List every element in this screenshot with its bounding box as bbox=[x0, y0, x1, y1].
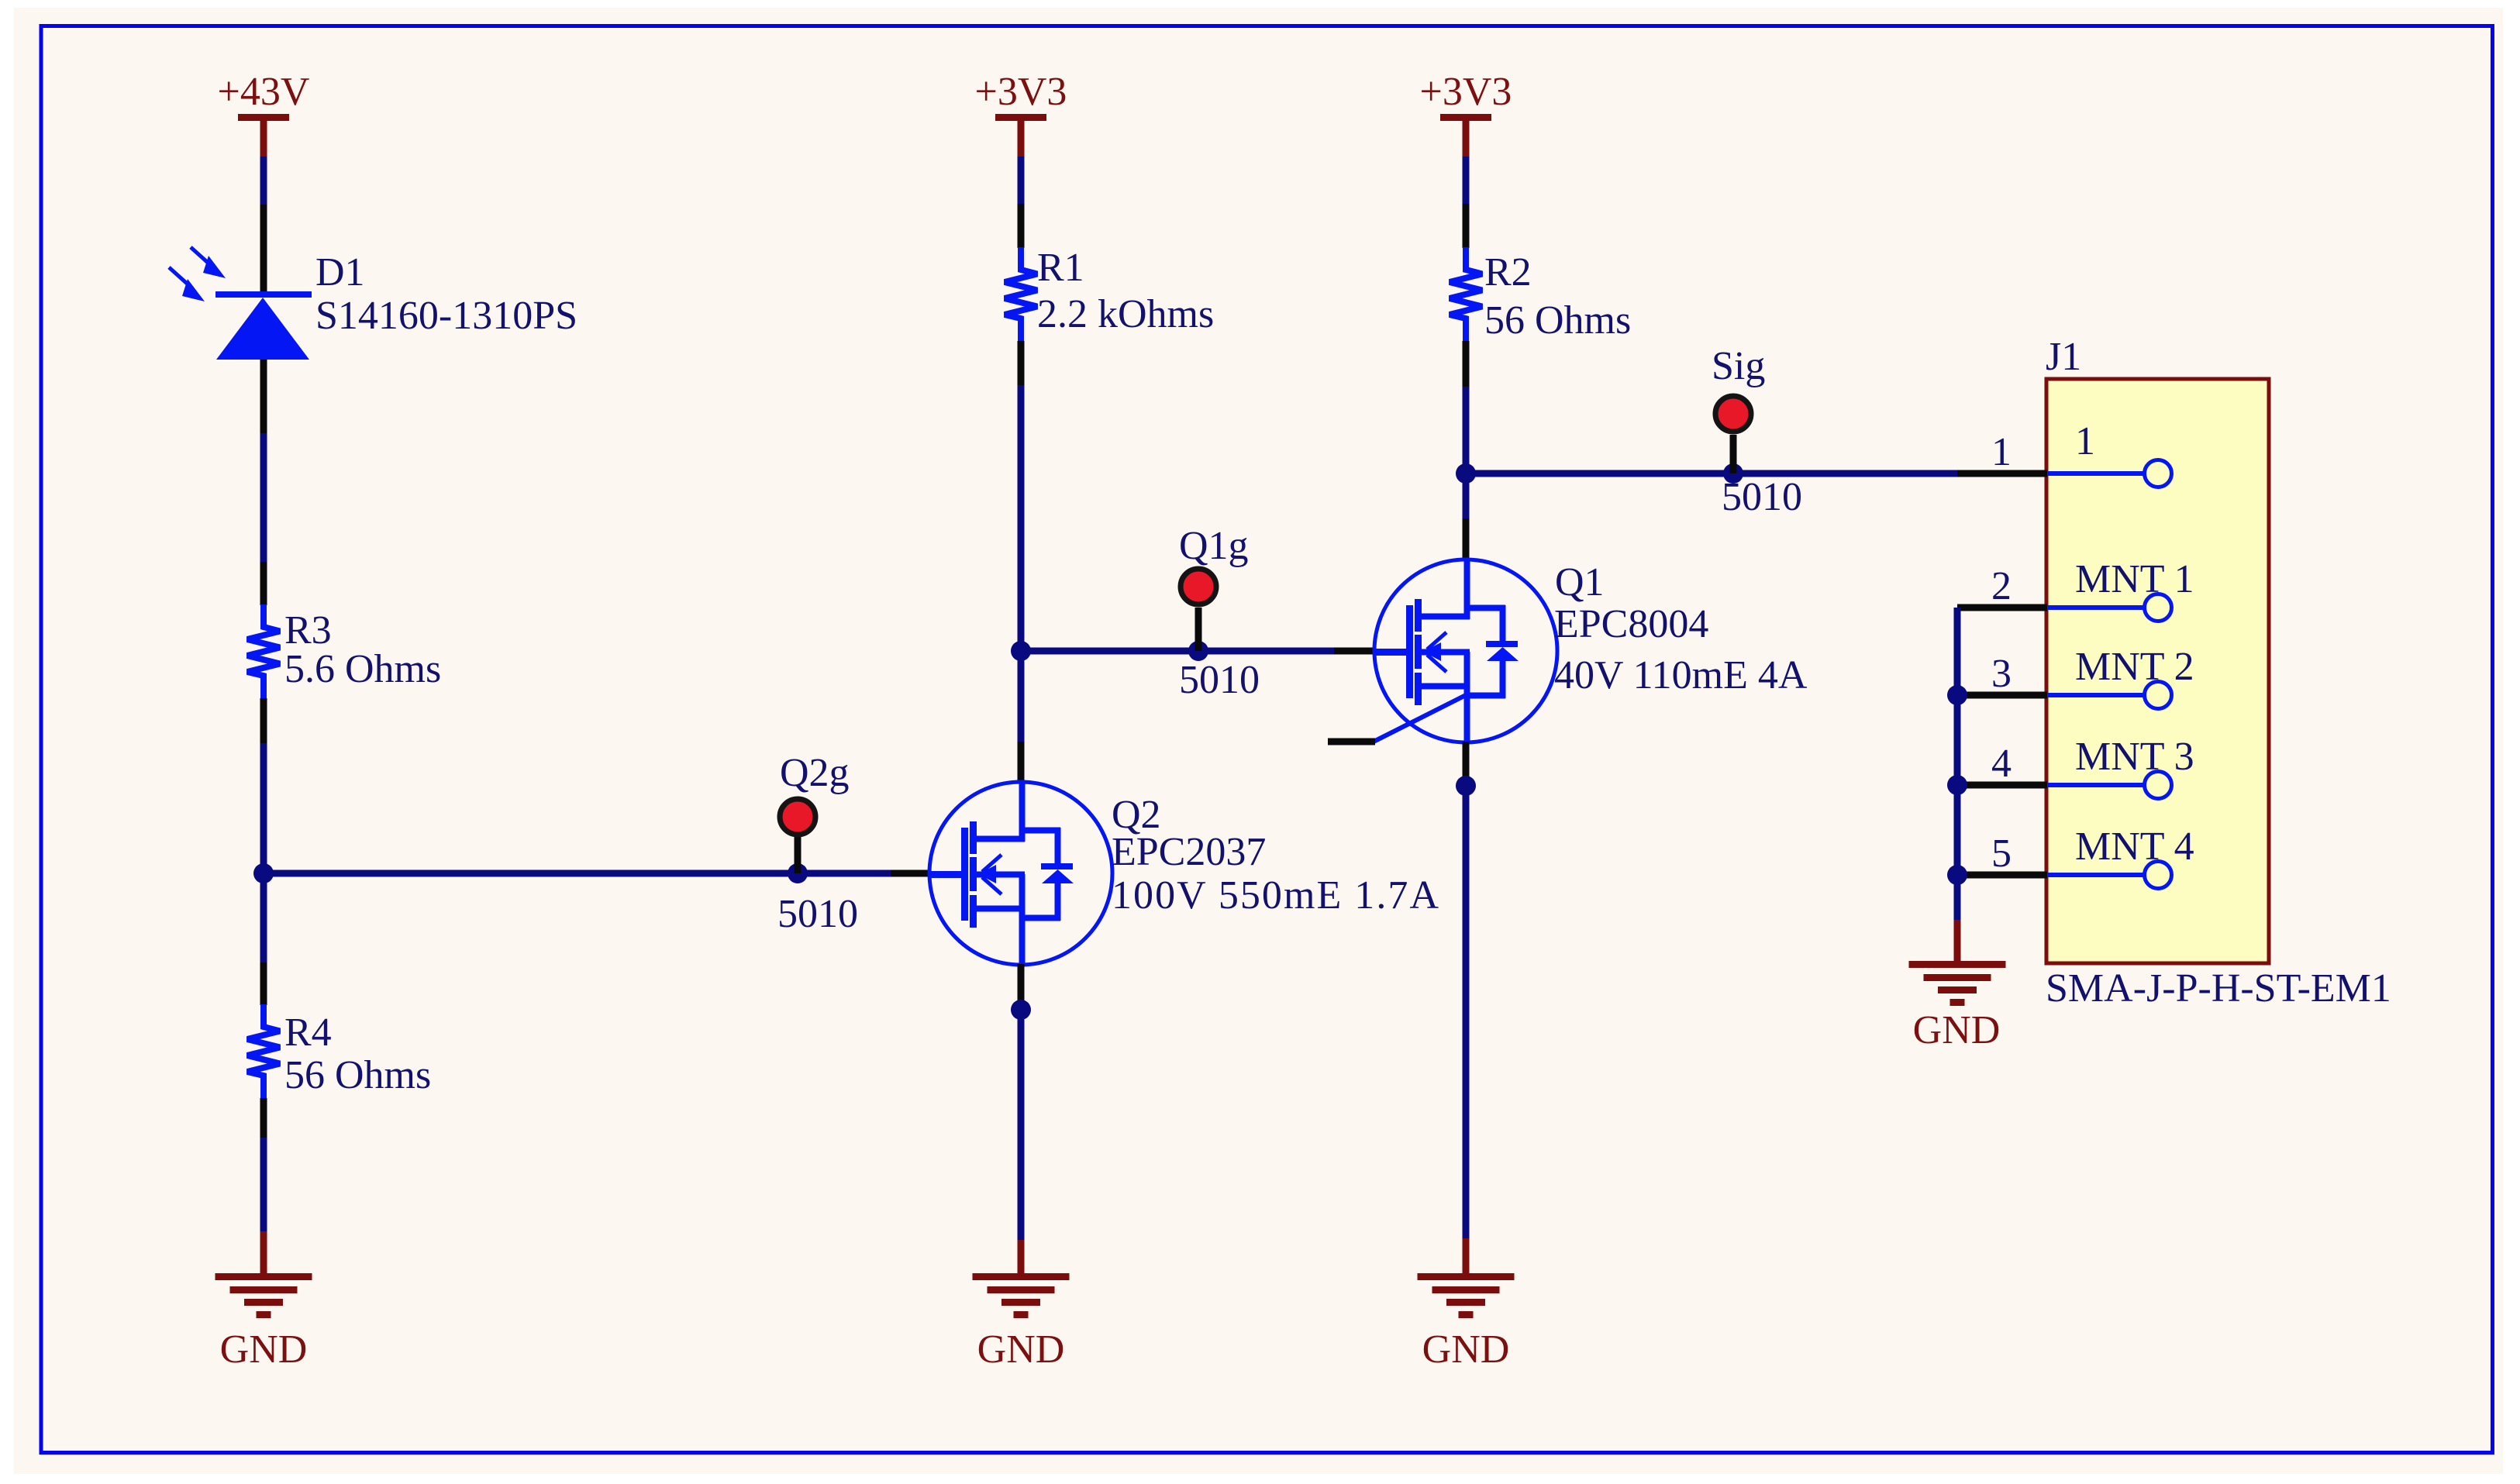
wire bbox=[264, 870, 892, 877]
pin Q1 gate bbox=[1334, 648, 1375, 655]
svg-text:R1: R1 bbox=[1037, 246, 1084, 290]
value 56 Ohms bbox=[1484, 298, 1631, 343]
svg-text:5010: 5010 bbox=[1179, 658, 1260, 702]
pin 3 lead inside bbox=[2048, 682, 2172, 709]
pin J1.2 bbox=[1957, 604, 2047, 611]
svg-text:GND: GND bbox=[220, 1327, 308, 1372]
label R1 bbox=[1037, 246, 1084, 290]
power +3V3 bbox=[995, 114, 1046, 157]
svg-text:MNT 1: MNT 1 bbox=[2075, 557, 2194, 601]
svg-text:Q2g: Q2g bbox=[780, 751, 850, 795]
net label 5010 bbox=[1179, 658, 1260, 702]
svg-text:MNT 3: MNT 3 bbox=[2075, 735, 2194, 779]
pin number 2 bbox=[1991, 564, 2012, 608]
net label 5010 bbox=[1722, 475, 1802, 519]
wire bbox=[260, 743, 267, 873]
wire bbox=[1018, 1010, 1025, 1241]
node A junction bbox=[253, 863, 274, 883]
svg-text:+3V3: +3V3 bbox=[975, 70, 1067, 114]
svg-text:5.6 Ohms: 5.6 Ohms bbox=[284, 647, 441, 691]
svg-text:R4: R4 bbox=[284, 1011, 332, 1055]
power label +43V bbox=[218, 70, 310, 114]
value 100V 550mE 1.7A bbox=[1112, 873, 1439, 918]
wire bbox=[260, 873, 267, 964]
wire bbox=[260, 157, 267, 206]
pin R4.1 bbox=[260, 962, 267, 1005]
svg-text:Sig: Sig bbox=[1712, 344, 1765, 388]
ground label GND bbox=[220, 1327, 308, 1372]
svg-text:40V 110mE 4A: 40V 110mE 4A bbox=[1554, 653, 1808, 697]
wire to Q1 gate bbox=[1021, 648, 1336, 655]
svg-text:Q1g: Q1g bbox=[1179, 524, 1249, 568]
pin 2 lead inside bbox=[2048, 594, 2172, 621]
pin Q1 drain bbox=[1463, 518, 1470, 560]
ground bbox=[215, 1273, 312, 1318]
connector J1 body bbox=[2046, 379, 2269, 963]
power label +3V3 bbox=[975, 70, 1067, 114]
svg-text:MNT 2: MNT 2 bbox=[2075, 645, 2194, 689]
wire bbox=[1463, 473, 1470, 520]
wire bbox=[260, 433, 267, 563]
value 40V 110mE 4A bbox=[1554, 653, 1808, 697]
pin 4 lead inside bbox=[2048, 772, 2172, 799]
net stub Sig bbox=[1730, 435, 1737, 473]
node D junction bbox=[1456, 463, 1476, 484]
svg-text:R3: R3 bbox=[284, 608, 332, 652]
wire bbox=[1463, 157, 1470, 205]
svg-text:R2: R2 bbox=[1484, 250, 1532, 294]
svg-text:GND: GND bbox=[1913, 1008, 2001, 1052]
pin label 1 bbox=[2075, 419, 2095, 463]
wire bbox=[1018, 385, 1025, 651]
pin Q2 gate bbox=[891, 870, 931, 877]
label J1 bbox=[2046, 335, 2081, 379]
pin Q2 drain bbox=[1018, 742, 1025, 782]
svg-text:SMA-J-P-H-ST-EM1: SMA-J-P-H-ST-EM1 bbox=[2046, 966, 2391, 1011]
ground label GND bbox=[977, 1327, 1065, 1372]
svg-text:EPC2037: EPC2037 bbox=[1112, 830, 1266, 874]
svg-text:GND: GND bbox=[977, 1327, 1065, 1372]
node E junction bbox=[1456, 776, 1476, 796]
pin J1.1 bbox=[1957, 470, 2047, 477]
wire Sig net bbox=[1466, 470, 1960, 477]
wire ground bus bbox=[1954, 608, 1961, 921]
wire bbox=[260, 1138, 267, 1232]
pin number 3 bbox=[1991, 652, 2012, 696]
svg-text:2.2 kOhms: 2.2 kOhms bbox=[1037, 292, 1214, 336]
pin Q1 substrate bbox=[1328, 739, 1375, 745]
pin D1.2 bbox=[260, 360, 267, 435]
svg-text:EPC8004: EPC8004 bbox=[1554, 602, 1708, 646]
power +43V bbox=[238, 114, 289, 157]
pin R1.2 bbox=[1018, 341, 1025, 387]
node Q2g junction bbox=[788, 863, 808, 883]
node Q1g junction bbox=[1188, 641, 1208, 661]
node B junction bbox=[1011, 641, 1031, 661]
pin Q1 source bbox=[1463, 742, 1470, 787]
value SMA-J-P-H-ST-EM1 bbox=[2046, 966, 2391, 1011]
pin label MNT 3 bbox=[2075, 735, 2194, 779]
pin label MNT 1 bbox=[2075, 557, 2194, 601]
pin 1 lead inside bbox=[2048, 460, 2172, 487]
svg-text:4: 4 bbox=[1991, 742, 2012, 786]
ground label GND bbox=[1422, 1327, 1510, 1372]
node bus-5 junction bbox=[1947, 865, 1967, 885]
value EPC8004 bbox=[1554, 602, 1708, 646]
ground J1 bbox=[1909, 961, 2006, 1006]
power label +3V3 second bbox=[1420, 70, 1512, 114]
pin Q2 source bbox=[1018, 964, 1025, 1011]
pin number 4 bbox=[1991, 742, 2012, 786]
pin R1.1 bbox=[1018, 204, 1025, 248]
net marker Sig bbox=[1715, 396, 1751, 432]
label Q1 bbox=[1555, 560, 1605, 604]
net label Sig bbox=[1712, 344, 1765, 388]
wire bbox=[1463, 387, 1470, 473]
svg-text:GND: GND bbox=[1422, 1327, 1510, 1372]
node bus-3 junction bbox=[1947, 685, 1967, 705]
svg-text:3: 3 bbox=[1991, 652, 2012, 696]
pin R3.2 bbox=[260, 698, 267, 745]
svg-text:J1: J1 bbox=[2046, 335, 2081, 379]
wire bbox=[1018, 157, 1025, 205]
svg-text:+43V: +43V bbox=[218, 70, 310, 114]
label Q2 bbox=[1112, 793, 1161, 837]
svg-text:+3V3: +3V3 bbox=[1420, 70, 1512, 114]
ground bbox=[973, 1273, 1070, 1318]
pin J1.5 bbox=[1957, 872, 2047, 879]
svg-text:Q1: Q1 bbox=[1555, 560, 1605, 604]
net label Q2g bbox=[780, 751, 850, 795]
net stub Q2g bbox=[795, 836, 802, 873]
pin R4.2 bbox=[260, 1098, 267, 1139]
resistor R3 bbox=[247, 604, 280, 698]
ground label GND bbox=[1913, 1008, 2001, 1052]
pin J1.4 bbox=[1957, 782, 2047, 789]
pin number 1 bbox=[1991, 430, 2012, 474]
svg-text:5010: 5010 bbox=[777, 892, 858, 936]
resistor R4 bbox=[247, 1004, 280, 1098]
ground bbox=[1418, 1273, 1515, 1318]
value 56 Ohms bbox=[284, 1053, 431, 1097]
svg-text:S14160-1310PS: S14160-1310PS bbox=[315, 294, 577, 338]
svg-text:56 Ohms: 56 Ohms bbox=[284, 1053, 431, 1097]
svg-text:D1: D1 bbox=[315, 250, 365, 294]
svg-text:2: 2 bbox=[1991, 564, 2012, 608]
net marker Q1g bbox=[1181, 569, 1216, 604]
svg-text:100V 550mE 1.7A: 100V 550mE 1.7A bbox=[1112, 873, 1439, 918]
label R4 bbox=[284, 1011, 332, 1055]
ground stub bbox=[1018, 1240, 1025, 1274]
label R3 bbox=[284, 608, 332, 652]
svg-text:56 Ohms: 56 Ohms bbox=[1484, 298, 1631, 343]
wire bbox=[1018, 651, 1025, 743]
net stub Q1g bbox=[1195, 608, 1202, 651]
power +3V3 second bbox=[1440, 114, 1491, 157]
resistor R1 bbox=[1005, 247, 1037, 341]
node Sig junction bbox=[1723, 463, 1743, 484]
photodiode D1 bbox=[169, 247, 312, 360]
value EPC2037 bbox=[1112, 830, 1266, 874]
ground stub bbox=[1463, 1238, 1470, 1274]
ground stub bbox=[1954, 920, 1961, 962]
value S14160-1310PS bbox=[315, 294, 577, 338]
pin label MNT 2 bbox=[2075, 645, 2194, 689]
pin D1.1 bbox=[260, 205, 267, 292]
value 2.2 kOhms bbox=[1037, 292, 1214, 336]
pin R3.1 bbox=[260, 562, 267, 605]
pin R2.1 bbox=[1463, 204, 1470, 248]
node C junction bbox=[1011, 1000, 1031, 1020]
node bus-4 junction bbox=[1947, 775, 1967, 795]
svg-text:1: 1 bbox=[1991, 430, 2012, 474]
transistor Q1 bbox=[1374, 560, 1557, 742]
pin 5 lead inside bbox=[2048, 862, 2172, 889]
wire bbox=[1463, 786, 1470, 1239]
svg-text:5: 5 bbox=[1991, 832, 2012, 876]
pin label MNT 4 bbox=[2075, 825, 2194, 869]
ground stub bbox=[260, 1231, 267, 1274]
label D1 bbox=[315, 250, 365, 294]
net label 5010 bbox=[777, 892, 858, 936]
value 5.6 Ohms bbox=[284, 647, 441, 691]
svg-text:5010: 5010 bbox=[1722, 475, 1802, 519]
resistor R2 bbox=[1450, 247, 1482, 341]
pin J1.3 bbox=[1957, 692, 2047, 699]
svg-text:MNT 4: MNT 4 bbox=[2075, 825, 2194, 869]
pin number 5 bbox=[1991, 832, 2012, 876]
transistor Q2 bbox=[929, 782, 1112, 965]
net label Q1g bbox=[1179, 524, 1249, 568]
net marker Q2g bbox=[780, 799, 815, 835]
svg-text:1: 1 bbox=[2075, 419, 2095, 463]
pin R2.2 bbox=[1463, 341, 1470, 388]
label R2 bbox=[1484, 250, 1532, 294]
